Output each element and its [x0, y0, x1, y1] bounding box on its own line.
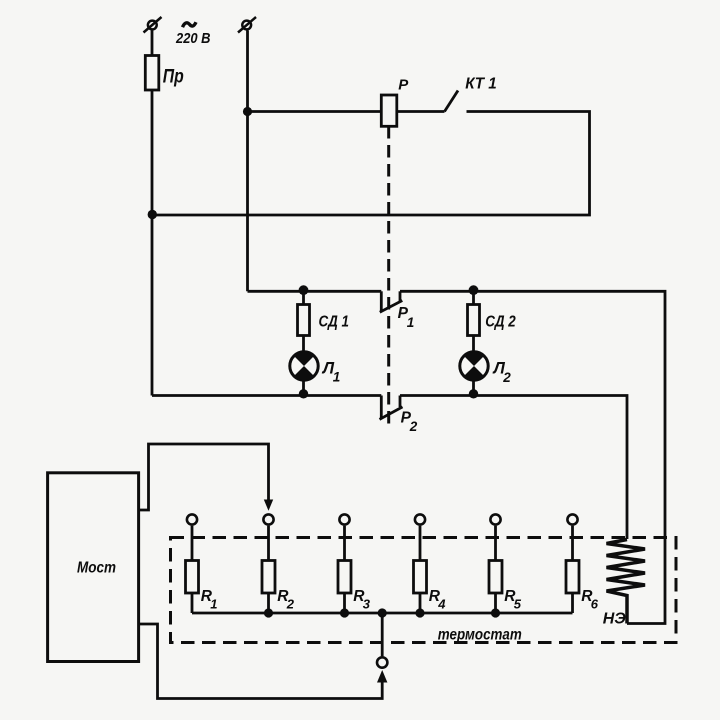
svg-text:СД 1: СД 1	[319, 313, 350, 330]
svg-text:3: 3	[363, 597, 371, 612]
svg-text:2: 2	[286, 597, 295, 612]
svg-text:5: 5	[514, 597, 522, 612]
svg-text:220 В: 220 В	[175, 30, 211, 47]
svg-text:КТ 1: КТ 1	[465, 76, 497, 93]
svg-text:2: 2	[502, 370, 511, 385]
svg-text:2: 2	[409, 419, 418, 434]
svg-text:6: 6	[591, 597, 599, 612]
svg-text:Пр: Пр	[163, 67, 184, 88]
svg-text:НЭ: НЭ	[603, 611, 627, 628]
svg-text:термостат: термостат	[438, 627, 522, 644]
svg-text:1: 1	[333, 370, 341, 385]
svg-text:Р: Р	[398, 76, 409, 93]
svg-text:4: 4	[437, 597, 446, 612]
svg-text:СД 2: СД 2	[485, 313, 516, 330]
svg-text:1: 1	[407, 315, 415, 330]
svg-text:1: 1	[210, 597, 217, 612]
svg-text:Мост: Мост	[77, 560, 116, 577]
